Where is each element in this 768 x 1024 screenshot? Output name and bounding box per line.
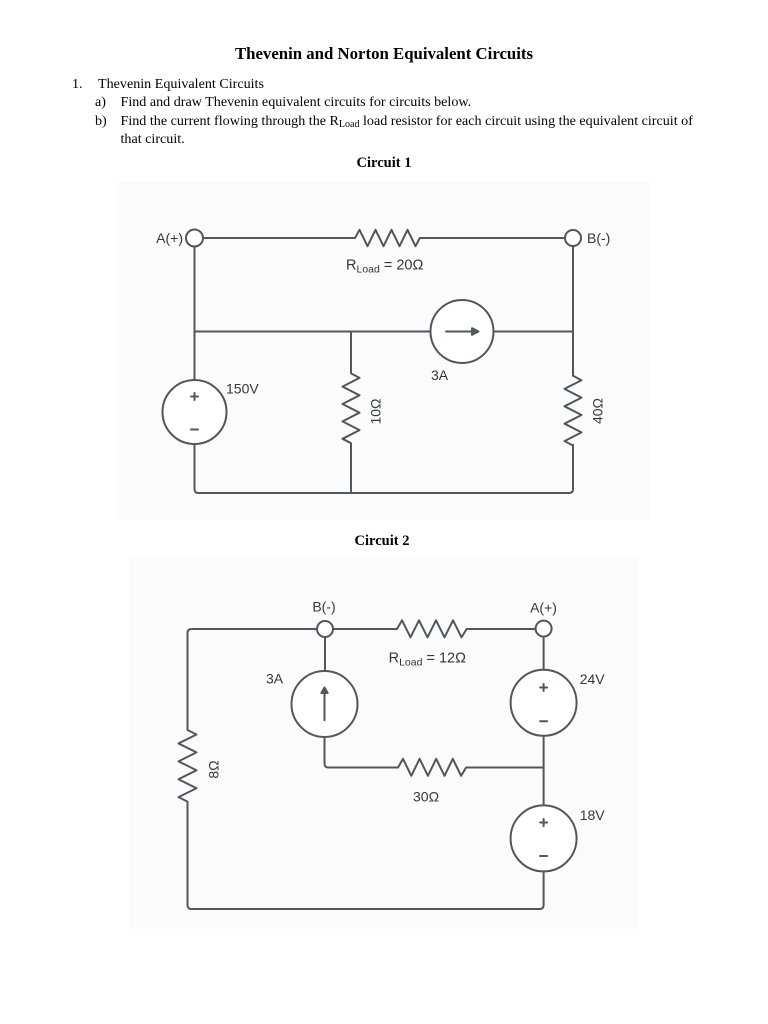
svg-text:B(-): B(-)	[587, 230, 610, 246]
svg-text:A(+): A(+)	[530, 600, 557, 616]
svg-text:A(+): A(+)	[156, 230, 183, 246]
svg-text:40Ω: 40Ω	[590, 398, 606, 424]
svg-text:8Ω: 8Ω	[206, 760, 222, 778]
svg-text:150V: 150V	[226, 381, 259, 397]
svg-text:3A: 3A	[266, 671, 284, 687]
svg-text:30Ω: 30Ω	[413, 789, 439, 805]
svg-text:24V: 24V	[580, 671, 606, 687]
svg-text:10Ω: 10Ω	[368, 398, 384, 424]
svg-text:18V: 18V	[580, 807, 606, 823]
svg-text:B(-): B(-)	[312, 599, 335, 615]
svg-text:3A: 3A	[431, 367, 449, 383]
